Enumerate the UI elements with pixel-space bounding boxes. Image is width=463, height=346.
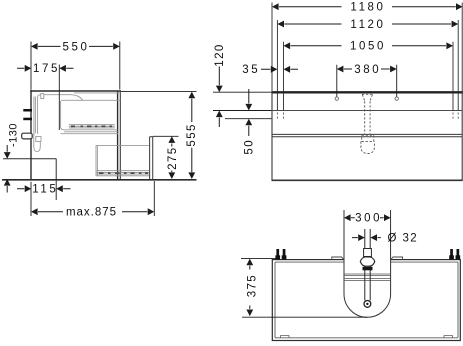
cabinet side: bottom edge (with extension lines both sides) xyxy=(2,179,197,181)
dim -130 xyxy=(4,123,20,193)
basin bottom line xyxy=(272,110,462,112)
cabinet side: wall edge (left) xyxy=(30,90,32,180)
open lower drawer: top rim xyxy=(96,144,149,146)
wall supply connection (top black bar) xyxy=(23,109,32,112)
wall drain socket xyxy=(22,133,33,139)
hex nut xyxy=(360,257,375,266)
svg-text:50: 50 xyxy=(244,139,256,155)
pipe collar xyxy=(364,249,372,257)
U-shaped siphon cutout xyxy=(344,260,391,318)
dim 1050 xyxy=(284,41,454,53)
dim 35 xyxy=(242,64,298,76)
svg-text:1120: 1120 xyxy=(350,19,385,31)
faucet hole right xyxy=(395,97,398,100)
erase outer top edge across U cutout xyxy=(345,258,390,260)
svg-text:175: 175 xyxy=(33,63,60,75)
upper drawer: bottom lip line xyxy=(64,131,117,133)
svg-text:115: 115 xyxy=(32,184,58,196)
inner bottom notches xyxy=(281,336,453,338)
upper drawer: back wall xyxy=(61,101,118,130)
ext lines 1120/1050 left (solid + dashes) xyxy=(277,20,283,111)
basin overflow boss xyxy=(41,94,44,99)
svg-text:300: 300 xyxy=(355,213,382,225)
service recess vertical / ext of 115 xyxy=(55,159,57,200)
right fixing tab xyxy=(391,257,403,260)
svg-text:max.875: max.875 xyxy=(66,207,117,219)
cabinet side: front panel outer line xyxy=(119,91,121,179)
svg-text:1050: 1050 xyxy=(350,41,386,53)
right mounting pins xyxy=(449,249,460,260)
siphon trap nut xyxy=(36,136,41,141)
open lower drawer: slide rail xyxy=(97,171,150,176)
svg-text:-130: -130 xyxy=(7,123,19,147)
cabinet bottom edge xyxy=(272,179,463,181)
left mounting pins xyxy=(275,249,286,260)
faucet hole left xyxy=(335,97,338,100)
dim 1120 xyxy=(277,19,458,31)
service recess step line xyxy=(3,158,56,160)
dim 380 + ext lines xyxy=(337,64,397,97)
dim 550 xyxy=(31,41,120,89)
ext line 1180 left xyxy=(271,3,273,92)
svg-text:375: 375 xyxy=(246,274,258,297)
open drawer front panel xyxy=(150,137,153,180)
dim max.875 xyxy=(31,181,154,219)
basin top thick edge xyxy=(271,91,463,93)
wall supply connection (second black bar) xyxy=(23,118,32,121)
dim 115 xyxy=(17,184,71,196)
svg-text:555: 555 xyxy=(186,123,198,146)
dim 1180 xyxy=(272,2,463,14)
bottom view: outer box xyxy=(272,260,460,341)
dim 120 + ext lines xyxy=(213,43,271,127)
basin interior profile (light) xyxy=(38,93,121,134)
dim 275 xyxy=(153,136,179,179)
inner horizontal lines in cutout xyxy=(344,274,391,281)
upper drawer: slide rail bar xyxy=(69,125,115,128)
black seal ring xyxy=(363,267,373,271)
dim 555 xyxy=(121,92,198,179)
dim 175 xyxy=(17,63,74,130)
basin drain pipe (light) xyxy=(34,97,36,136)
ext lines 1120/1050 right (solid + dashes) xyxy=(453,20,458,111)
open lower drawer: back wall xyxy=(96,145,97,176)
hidden drain (dashed), front view xyxy=(361,94,375,153)
svg-text:550: 550 xyxy=(63,41,90,53)
dim Ø 32 xyxy=(352,233,418,245)
svg-text:35: 35 xyxy=(242,64,260,76)
drawer gap double line xyxy=(272,134,462,136)
bottom view: inner box lines xyxy=(275,262,458,338)
basin / cabinet right edge xyxy=(461,91,463,181)
basin / cabinet left edge xyxy=(271,91,273,181)
dim 300 + ext lines xyxy=(344,210,391,259)
pipe end circle xyxy=(364,301,371,308)
cabinet side: front panel inner line xyxy=(117,91,119,179)
ext line 1180 right xyxy=(461,3,463,92)
svg-text:120: 120 xyxy=(214,43,226,66)
left fixing tab xyxy=(332,257,344,260)
svg-text:Ø 32: Ø 32 xyxy=(388,233,419,245)
cabinet side: top edge xyxy=(30,90,121,92)
svg-text:380: 380 xyxy=(354,64,381,76)
dim 375 + ext lines xyxy=(241,259,367,318)
siphon trap U-bulb xyxy=(34,133,41,152)
drain pipe (bottom view) xyxy=(365,229,370,301)
svg-text:275: 275 xyxy=(167,147,179,170)
svg-text:1180: 1180 xyxy=(350,2,385,14)
dim 50 + ext line xyxy=(225,89,271,155)
upper drawer: lower gap line xyxy=(61,133,118,135)
